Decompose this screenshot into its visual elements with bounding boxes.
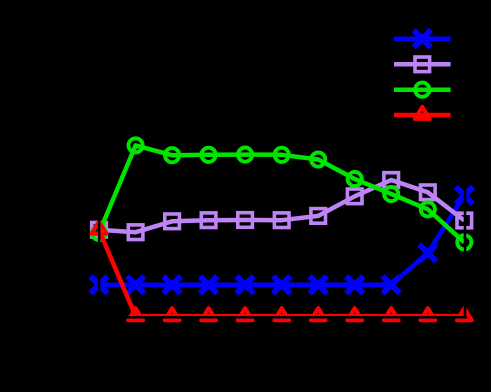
legend purple sample line xyxy=(394,62,451,67)
purple square marker point 10 xyxy=(457,213,472,228)
red triangle marker point 5 xyxy=(274,308,289,320)
blue x marker point 9 xyxy=(419,244,436,261)
red triangle marker point 10 xyxy=(457,308,472,320)
blue series line (x markers) xyxy=(99,195,464,284)
blue x marker point 10 xyxy=(456,187,473,204)
red triangle marker point 9 xyxy=(420,308,435,320)
legend green sample line xyxy=(394,87,451,92)
legend purple marker xyxy=(415,57,430,72)
green circle marker point 6 xyxy=(311,152,325,166)
green circle marker point 8 xyxy=(384,187,398,201)
red triangle marker point 3 xyxy=(201,308,216,320)
red triangle marker point 0 xyxy=(92,222,107,234)
red triangle marker point 6 xyxy=(311,308,326,320)
axis frame (black, drawn over data) xyxy=(99,29,465,317)
purple square marker point 1 xyxy=(128,225,143,240)
red triangle marker point 2 xyxy=(165,308,180,320)
blue x marker point 7 xyxy=(346,276,363,293)
blue x marker point 8 xyxy=(383,276,400,293)
purple square marker point 7 xyxy=(347,189,362,204)
blue x marker point 2 xyxy=(164,276,181,293)
red triangle marker point 8 xyxy=(384,308,399,320)
green circle marker point 9 xyxy=(421,202,435,216)
blue x marker point 5 xyxy=(273,276,290,293)
blue x marker point 3 xyxy=(200,276,217,293)
green circle marker point 2 xyxy=(165,148,179,162)
green circle marker point 0 xyxy=(92,226,106,240)
green circle marker point 3 xyxy=(202,148,216,162)
blue x marker point 4 xyxy=(237,276,254,293)
legend blue sample line xyxy=(394,36,451,41)
purple square marker point 3 xyxy=(201,213,216,228)
green circle marker point 7 xyxy=(348,172,362,186)
red triangle marker point 7 xyxy=(347,308,362,320)
legend blue marker xyxy=(414,30,431,47)
red triangle marker point 1 xyxy=(128,308,143,320)
purple square marker point 0 xyxy=(92,223,107,238)
green circle marker point 1 xyxy=(129,138,143,152)
blue x marker point 0 xyxy=(90,276,107,293)
purple square marker point 6 xyxy=(311,209,326,224)
purple square marker point 9 xyxy=(421,185,436,200)
legend red sample line xyxy=(394,113,451,118)
red series line (triangle markers) xyxy=(99,230,464,316)
purple square marker point 5 xyxy=(274,213,289,228)
purple square marker point 8 xyxy=(384,173,399,188)
purple square marker point 2 xyxy=(165,214,180,229)
green series line (circle markers) xyxy=(99,145,464,242)
red triangle marker point 4 xyxy=(238,308,253,320)
legend red marker xyxy=(415,107,430,119)
purple square marker point 4 xyxy=(238,213,253,228)
purple series line (square markers) xyxy=(99,180,464,232)
legend green marker xyxy=(415,83,429,97)
green circle marker point 5 xyxy=(275,148,289,162)
blue x marker point 1 xyxy=(127,276,144,293)
green circle marker point 10 xyxy=(457,235,471,249)
green circle marker point 4 xyxy=(238,148,252,162)
blue x marker point 6 xyxy=(310,276,327,293)
